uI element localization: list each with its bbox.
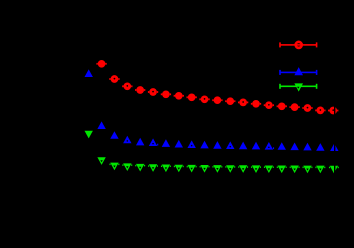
red series data point 18: open circle marker with error bar caps — [315, 107, 325, 115]
blue series data point 3: up-triangle marker — [123, 136, 131, 144]
red series data point 16: open circle marker with error bar caps — [289, 103, 299, 111]
green series data point 1: down-triangle marker with error bar caps — [97, 157, 105, 165]
blue series data point 8: up-triangle marker — [187, 140, 195, 148]
right axis spine (black) crossing the last data markers — [334, 30, 335, 180]
red series data point 2: open circle marker with error bar caps — [109, 75, 119, 83]
blue series data point 6: up-triangle marker — [162, 139, 170, 147]
blue series data point 2: up-triangle marker — [110, 131, 118, 139]
green series data point 17: down-triangle marker with error bar caps — [303, 166, 313, 174]
red series data point 15: open circle marker with error bar caps — [277, 102, 287, 110]
blue series data point 4: up-triangle marker — [136, 138, 144, 146]
green series data point 7: down-triangle marker with error bar caps — [174, 165, 184, 173]
blue series data point 13: up-triangle marker — [252, 142, 260, 150]
red series data point 5: open circle marker with error bar caps — [148, 88, 158, 96]
blue series data point 18: up-triangle marker — [316, 143, 324, 151]
green series data point 6: down-triangle marker with error bar caps — [161, 165, 171, 173]
legend entry 1: red open-circle errorbar sample — [279, 42, 317, 48]
red series data point 6: open circle marker with error bar caps — [161, 90, 171, 98]
green series data point 10: down-triangle marker with error bar caps — [212, 165, 222, 173]
green series data point 12: down-triangle marker with error bar caps — [238, 165, 248, 173]
red series data point 17: open circle marker with error bar caps — [302, 104, 312, 112]
blue series data point 7: up-triangle marker — [175, 140, 183, 148]
red series data point 3: open circle marker with error bar caps — [122, 82, 132, 90]
blue series data point 12: up-triangle marker — [239, 142, 247, 150]
green series data point 15: down-triangle marker with error bar caps — [277, 166, 287, 174]
blue series data point 1: up-triangle marker — [97, 121, 105, 129]
green series data point 8: down-triangle marker with error bar caps — [187, 165, 197, 173]
green series data point 5: down-triangle marker with error bar caps — [148, 164, 158, 172]
red series data point 8: open circle marker with error bar caps — [187, 93, 197, 101]
blue series data point 9: up-triangle marker — [200, 141, 208, 149]
green series data point 4: down-triangle marker with error bar caps — [135, 164, 145, 172]
legend entry 3: green down-triangle errorbar sample — [279, 83, 317, 91]
red series data point 1: open circle marker with error bar caps — [96, 60, 106, 68]
red series data point 12: open circle marker with error bar caps — [238, 99, 248, 107]
red series data point 4: open circle marker with error bar caps — [135, 86, 145, 94]
green series data point 9: down-triangle marker with error bar caps — [200, 165, 210, 173]
blue series data point 15: up-triangle marker — [278, 142, 286, 150]
red series data point 14: open circle marker with error bar caps — [264, 101, 274, 109]
blue series data point 10: up-triangle marker — [213, 141, 221, 149]
green series data point 0: down-triangle marker with error bar caps — [85, 131, 93, 139]
red series data point 10: open circle marker with error bar caps — [212, 96, 222, 104]
blue series data point 14: up-triangle marker — [265, 142, 274, 150]
green series data point 2: down-triangle marker with error bar caps — [109, 163, 119, 171]
green series data point 14: down-triangle marker with error bar caps — [264, 165, 274, 173]
blue series data point 11: up-triangle marker — [226, 141, 234, 149]
blue series data point 19: up-triangle marker — [330, 143, 338, 151]
green series data point 11: down-triangle marker with error bar caps — [225, 165, 235, 173]
legend entry 2: blue up-triangle errorbar sample — [279, 67, 317, 75]
blue series data point 17: up-triangle marker — [303, 143, 311, 151]
red series data point 19: open circle marker with error bar caps — [328, 107, 338, 115]
red series data point 13: open circle marker with error bar caps — [251, 100, 261, 108]
red series data point 7: open circle marker with error bar caps — [174, 92, 184, 100]
blue series data point 16: up-triangle marker — [290, 143, 298, 151]
blue series data point 0: up-triangle marker — [85, 69, 93, 77]
red series data point 11: open circle marker with error bar caps — [225, 97, 235, 105]
green series data point 3: down-triangle marker with error bar caps — [122, 163, 132, 171]
blue series data point 5: up-triangle marker — [149, 138, 158, 146]
green series data point 19: down-triangle marker with error bar caps — [329, 166, 339, 174]
red series data point 9: open circle marker with error bar caps — [199, 95, 209, 103]
green series data point 18: down-triangle marker with error bar caps — [315, 166, 325, 174]
green series data point 16: down-triangle marker with error bar caps — [290, 166, 300, 174]
green series data point 13: down-triangle marker with error bar caps — [251, 165, 261, 173]
